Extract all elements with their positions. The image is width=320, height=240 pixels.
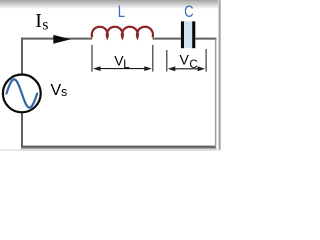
svg-text:L: L <box>123 59 130 71</box>
svg-text:C: C <box>189 59 197 71</box>
svg-text:I: I <box>35 10 42 32</box>
svg-text:s: s <box>61 85 67 99</box>
svg-text:C: C <box>184 2 193 21</box>
svg-text:V: V <box>51 82 62 99</box>
svg-text:V: V <box>180 52 190 68</box>
svg-text:L: L <box>118 2 125 21</box>
svg-text:s: s <box>42 17 48 34</box>
